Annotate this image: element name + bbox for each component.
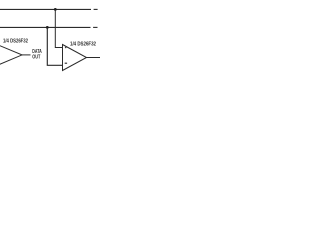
wire bus line A dashed continuation: [94, 8, 98, 10]
wire bus line B (lower differential line, solid run): [0, 26, 91, 28]
node junction on bus line B: [46, 26, 49, 29]
op-amp U2 line receiver, 1/4 DS26F32: [63, 45, 87, 71]
wire tap from line A down to receiver non-inverting input: [55, 9, 62, 47]
wire bus line B dashed continuation: [93, 26, 97, 28]
pin - (inverting input mark): [65, 62, 67, 64]
node junction on bus line A: [54, 8, 57, 11]
wire tap from line B down to receiver inverting input: [47, 27, 62, 65]
svg-text:1/4 DS26F32: 1/4 DS26F32: [70, 41, 96, 47]
pin + (non-inverting input mark): [65, 47, 67, 49]
svg-text:OUT: OUT: [32, 54, 41, 60]
op-amp U1 line driver (clipped at left edge), 1/4 DS26F32: [0, 44, 22, 65]
wire bus line A (top differential line, solid run): [0, 8, 91, 10]
svg-text:1/4 DS26F32: 1/4 DS26F32: [3, 39, 28, 45]
wire receiver output to right edge: [87, 57, 101, 59]
wire driver output stub: [22, 54, 31, 56]
